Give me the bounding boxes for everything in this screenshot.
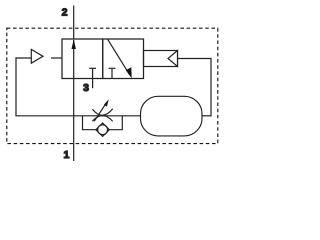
main bottom wire bbox=[15, 115, 140, 117]
pilot stub to valve bbox=[51, 57, 62, 59]
bypass right vertical bbox=[121, 116, 123, 130]
svg-text:3: 3 bbox=[83, 82, 89, 94]
wire from pilot box to right rail bbox=[178, 58, 212, 60]
bypass left vertical bbox=[82, 116, 84, 130]
pilot signal triangle (left) bbox=[31, 49, 43, 63]
pilot triangle (right, pointing left) bbox=[168, 51, 178, 67]
dashed enclosure border bbox=[7, 28, 218, 143]
port 2 line bbox=[73, 6, 75, 40]
svg-text:2: 2 bbox=[62, 7, 68, 19]
blocked port T (left box) bbox=[89, 68, 96, 78]
bypass bottom wire bbox=[82, 129, 123, 131]
svg-text:1: 1 bbox=[63, 149, 69, 161]
valve U1 body left box bbox=[62, 39, 103, 79]
reservoir (air accumulator) bbox=[141, 96, 203, 136]
wire right rail to reservoir bbox=[202, 115, 212, 117]
check valve seat diamond bbox=[96, 123, 109, 136]
right rail wire bbox=[210, 58, 212, 117]
valve flow path arrow (right box, 2 to 3 diagonal) bbox=[108, 39, 132, 78]
left pilot wire vertical bbox=[15, 57, 17, 116]
port 3 exhaust stub bbox=[92, 79, 94, 89]
throttle upper arc bbox=[92, 109, 112, 115]
check valve ball bbox=[98, 125, 108, 135]
port 1 line bbox=[73, 79, 75, 162]
throttle lower arc bbox=[92, 116, 112, 122]
blocked port T (right box) bbox=[109, 68, 116, 78]
throttle adjustment arrow bbox=[94, 99, 109, 121]
valve flow path arrow (left box, 1 to 2) bbox=[72, 39, 76, 78]
pilot actuator box (right) bbox=[144, 51, 178, 67]
left pilot wire horizontal bbox=[15, 57, 31, 59]
valve U1 body right box bbox=[103, 39, 144, 79]
